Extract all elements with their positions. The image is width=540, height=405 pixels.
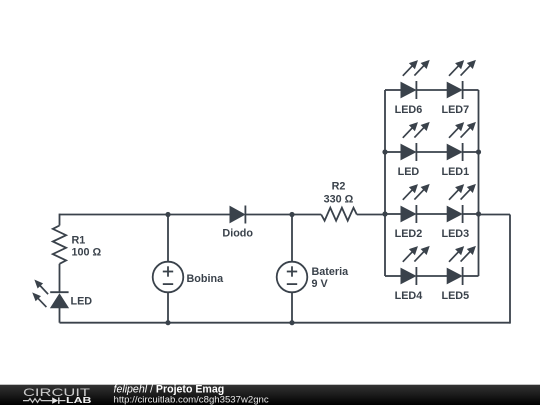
wire top segment left (node A to diode): [60, 214, 230, 216]
svg-text:http://circuitlab.com/c8gh3537: http://circuitlab.com/c8gh3537w2gnc: [114, 395, 269, 405]
wire left vertical bottom (LED to bottom wire): [59, 308, 61, 323]
svg-text:R1: R1: [72, 234, 86, 246]
logo waveform resistor: [23, 399, 52, 403]
wire bottom horizontal: [60, 322, 511, 324]
LED LED1: [447, 123, 475, 161]
wire Bateria top: [291, 215, 293, 262]
wire row4 segments: [385, 275, 401, 277]
svg-text:9 V: 9 V: [312, 278, 329, 290]
junction node Bobina top: [165, 212, 170, 217]
wire left vertical mid (R1 to LED): [59, 264, 61, 292]
LED LED5: [447, 247, 475, 285]
resistor R1 zigzag: [53, 226, 66, 264]
svg-text:Bateria: Bateria: [312, 266, 350, 278]
resistor R2 zigzag: [321, 208, 357, 221]
svg-text:Diodo: Diodo: [222, 228, 253, 240]
svg-text:100 Ω: 100 Ω: [72, 246, 102, 258]
svg-text:330 Ω: 330 Ω: [324, 193, 354, 205]
junction node Bobina bottom: [165, 320, 170, 325]
LED LED4: [401, 247, 429, 285]
wire Bateria bottom: [291, 293, 293, 323]
svg-text:LED6: LED6: [395, 104, 423, 116]
LED LED7: [447, 61, 475, 99]
LED LED2: [401, 185, 429, 223]
wire Bobina bottom: [167, 293, 169, 323]
voltage source Bateria symbol: [277, 262, 308, 293]
wire LED array right rail: [478, 90, 480, 276]
svg-text:LED: LED: [71, 296, 93, 308]
footer bar: [0, 385, 540, 405]
wire right vertical: [509, 215, 511, 324]
junction node array left rail row3: [382, 211, 387, 216]
svg-text:LED3: LED3: [441, 228, 469, 240]
logo diode symbol: [52, 397, 58, 403]
wire top segment (R2 to LED array): [357, 214, 385, 216]
svg-text:LED4: LED4: [395, 290, 423, 302]
diode D1 Diodo symbol: [230, 206, 245, 224]
svg-text:LED1: LED1: [441, 166, 469, 178]
junction node Bateria bottom: [289, 320, 294, 325]
voltage source Bobina symbol: [153, 262, 184, 293]
wire row1 segments: [385, 89, 401, 91]
junction node array right rail row3: [476, 211, 481, 216]
svg-text:LED5: LED5: [441, 290, 469, 302]
wire top segment (diode to R2): [246, 214, 321, 216]
LED LED (row2 left): [401, 123, 429, 161]
svg-text:LED2: LED2: [395, 228, 423, 240]
wire right stub to LED array: [479, 214, 511, 216]
svg-text:R2: R2: [332, 181, 346, 193]
svg-text:LAB: LAB: [66, 396, 92, 405]
LED LED3: [447, 185, 475, 223]
junction node Bateria top: [289, 212, 294, 217]
wire row3 segments: [385, 213, 401, 215]
wire row2 segments: [385, 151, 401, 153]
wire LED array left rail: [384, 90, 386, 276]
junction node array left rail row2: [382, 149, 387, 154]
LED LED6: [401, 61, 429, 99]
LED left (vertical) symbol: [33, 280, 69, 307]
junction node array right rail row2: [476, 149, 481, 154]
svg-text:Bobina: Bobina: [187, 273, 225, 285]
svg-text:LED: LED: [398, 166, 420, 178]
wire left vertical top: [59, 214, 61, 226]
svg-text:LED7: LED7: [441, 104, 469, 116]
wire Bobina top: [167, 215, 169, 262]
